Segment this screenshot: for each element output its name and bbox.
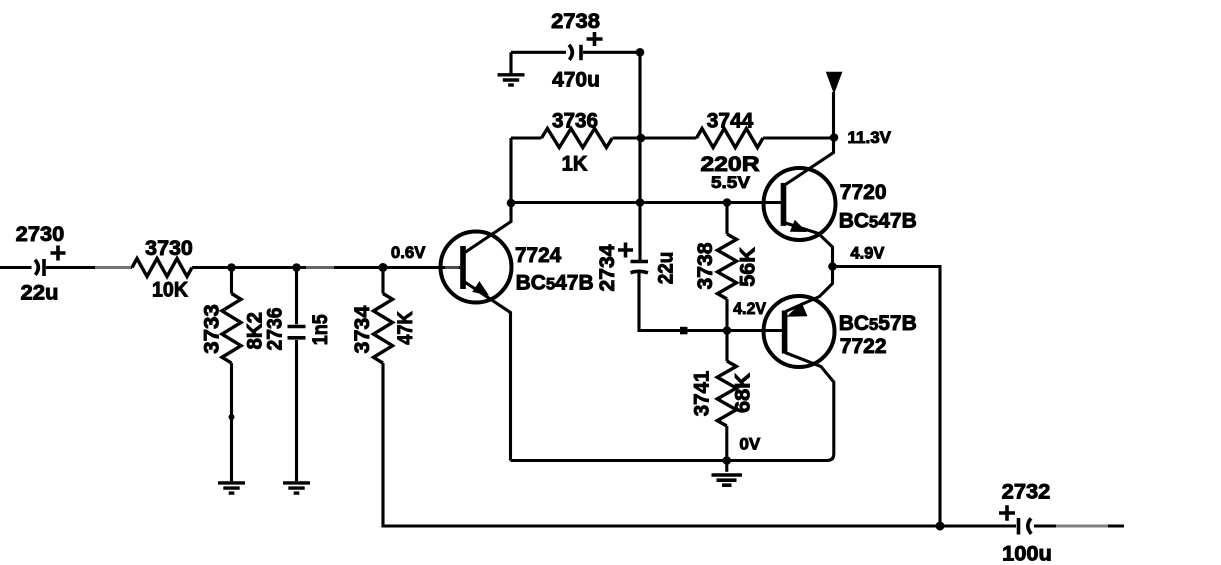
svg-text:2736: 2736 bbox=[264, 308, 287, 351]
svg-text:1K: 1K bbox=[562, 152, 588, 175]
svg-text:3734: 3734 bbox=[351, 305, 374, 353]
svg-text:1n5: 1n5 bbox=[309, 314, 332, 345]
svg-text:BC547B: BC547B bbox=[839, 210, 917, 233]
svg-text:2738: 2738 bbox=[551, 10, 600, 33]
svg-text:0.6V: 0.6V bbox=[391, 243, 426, 262]
svg-text:3741: 3741 bbox=[691, 370, 714, 416]
svg-text:100u: 100u bbox=[1002, 543, 1052, 565]
svg-text:7724: 7724 bbox=[515, 244, 562, 267]
svg-text:0V: 0V bbox=[739, 435, 761, 454]
svg-text:22u: 22u bbox=[21, 282, 59, 305]
svg-text:7720: 7720 bbox=[840, 181, 887, 204]
svg-text:47K: 47K bbox=[394, 311, 417, 345]
svg-text:11.3V: 11.3V bbox=[848, 128, 892, 147]
svg-text:68K: 68K bbox=[732, 373, 755, 413]
svg-text:2732: 2732 bbox=[1002, 481, 1051, 504]
svg-text:10K: 10K bbox=[152, 279, 188, 302]
svg-text:470u: 470u bbox=[552, 69, 600, 92]
svg-text:4.2V: 4.2V bbox=[733, 299, 767, 318]
svg-text:22u: 22u bbox=[655, 252, 678, 285]
svg-text:3744: 3744 bbox=[707, 109, 754, 132]
svg-text:2734: 2734 bbox=[596, 244, 619, 291]
svg-text:3738: 3738 bbox=[694, 242, 717, 289]
svg-text:4.9V: 4.9V bbox=[850, 243, 885, 262]
svg-text:BC557B: BC557B bbox=[839, 312, 917, 335]
svg-text:3730: 3730 bbox=[145, 237, 193, 260]
svg-text:3733: 3733 bbox=[201, 304, 224, 354]
svg-text:3736: 3736 bbox=[552, 109, 598, 132]
svg-text:56K: 56K bbox=[737, 247, 760, 287]
svg-text:BC547B: BC547B bbox=[516, 271, 594, 294]
svg-text:2730: 2730 bbox=[16, 223, 65, 246]
svg-text:5.5V: 5.5V bbox=[711, 173, 751, 192]
svg-text:7722: 7722 bbox=[840, 335, 887, 358]
